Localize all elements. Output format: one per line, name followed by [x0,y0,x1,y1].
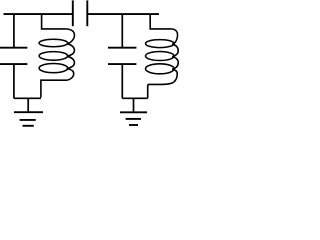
capacitor C2 top plate [0,47,27,49]
inductor L1 turn 2 [39,52,68,61]
inductor L1 right bumps [65,29,74,80]
capacitor C3 bottom plate [108,63,136,65]
wire below C2 [13,64,15,98]
inductor L2 lead and top stroke [150,14,171,29]
capacitor C2 bottom plate [0,63,27,65]
inductor L2 right bumps [171,29,179,82]
wire top-left segment [4,13,73,15]
wire bottom-right [122,97,147,99]
inductor L1 turn 1 [39,39,68,47]
capacitor C3 top plate [108,47,136,49]
ground right bar 1 [120,111,147,113]
ground left bar 1 [14,111,43,113]
wire right cap branch [121,14,123,48]
ground left bar 3 [23,125,34,127]
inductor L1 lead and top stroke [42,14,65,29]
wire below C3 [121,64,123,98]
inductor L2 turn 2 [146,52,175,61]
inductor L2 turn 1 [146,40,175,48]
wire left cap branch [13,14,15,48]
wire top-right segment [87,13,159,15]
capacitor C1 left plate [72,0,74,26]
ground left stem [27,98,29,112]
capacitor C1 right plate [86,0,88,26]
inductor L1 exit wire [41,80,67,97]
inductor L2 exit wire [148,82,174,98]
inductor L1 turn 3 [39,64,68,73]
ground right bar 2 [126,118,141,120]
wire bottom-left [14,97,41,99]
inductor L2 turn 3 [146,64,175,74]
ground left bar 2 [20,119,36,121]
ground right bar 3 [129,124,138,126]
ground right stem [133,98,135,112]
